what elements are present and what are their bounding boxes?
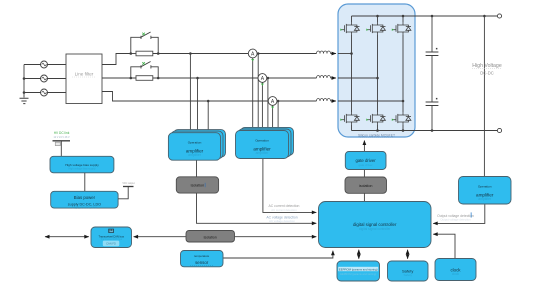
svg-text:AC current detection: AC current detection: [271, 208, 297, 212]
svg-text:EEPROM (params and storing): EEPROM (params and storing): [339, 267, 378, 271]
node: bus junction phase C: [23, 91, 26, 94]
transistor Q4: [340, 112, 359, 125]
ground: [20, 98, 29, 103]
svg-text:Safety: Safety: [403, 273, 412, 277]
wire: phase A after resistor: [153, 53, 317, 55]
node: top bus cap branch: [431, 15, 434, 18]
wire: DC- bottom bus: [352, 130, 498, 132]
High voltage bias supply box: [50, 156, 114, 173]
op-amp U1 (AC voltage operation amplifier, stacked): [168, 130, 225, 161]
transistor Q2: [366, 22, 385, 35]
switch S1 blade: [141, 32, 151, 37]
wire: phase A line to resistor: [131, 53, 136, 55]
op-amp U3 (output voltage operation amplifier): [459, 177, 512, 205]
isolation2: [186, 231, 235, 243]
wire: CAN bus external left: [45, 236, 89, 238]
svg-text:isolation: isolation: [204, 235, 217, 239]
node: after sensor A1: [257, 52, 260, 55]
wire: clock to DSC: [433, 234, 455, 258]
wire: op-amp U1 to isolation1: [196, 160, 198, 177]
node: top bus HV sense: [483, 15, 486, 18]
svg-text:isolation: isolation: [359, 184, 373, 188]
wire: phase A to leg 1: [338, 53, 352, 55]
wire: bias supply to bias power: [84, 173, 86, 192]
node: leg2 midpoint: [376, 77, 379, 80]
transistor Q5: [366, 112, 385, 125]
wire: sensor A1 tap down to op-amp U2: [257, 54, 259, 132]
node: leg1 midpoint: [350, 52, 353, 55]
svg-text:Line filter: Line filter: [75, 72, 94, 77]
battery input symbol: [53, 141, 71, 157]
op-amp U2 (AC current operation amplifier, stacked): [236, 127, 294, 158]
wire: sensor A2 output down to op-amp U2: [261, 82, 263, 131]
svg-text:VCC output: VCC output: [122, 182, 135, 185]
svg-text:Bias power: Bias power: [74, 195, 96, 200]
wire: bridge leg 3: [402, 16, 404, 131]
text cursor: [470, 212, 473, 217]
label: High Voltage DC-DC: [472, 63, 502, 76]
capacitor C1: [426, 16, 439, 102]
node: R1 left: [130, 52, 133, 55]
node: top bus col2: [376, 15, 379, 18]
svg-text:amplifier: amplifier: [188, 153, 202, 157]
svg-text:High voltage bias supply: High voltage bias supply: [68, 167, 96, 170]
wire: isolation1 to DSC (AC voltage detection): [197, 193, 317, 223]
node: voltage tap phase B: [196, 77, 199, 80]
svg-text:amplifier: amplifier: [256, 151, 270, 155]
svg-text:amplifier: amplifier: [478, 197, 492, 201]
wire: phase B input: [24, 78, 66, 80]
CAN transceiver box: [91, 227, 132, 248]
wire: L3 to bridge with arrow: [331, 100, 337, 102]
node: voltage tap phase C: [207, 100, 210, 103]
svg-text:AC voltage detection: AC voltage detection: [269, 219, 295, 223]
terminal: DC+ output: [497, 14, 501, 18]
digital signal controller U4: [319, 202, 432, 248]
current sensor A2: [258, 74, 267, 86]
transistor Q6: [392, 112, 411, 125]
wire: voltage tap B down to op-amp U1: [197, 78, 199, 133]
svg-text:gate driver: gate driver: [359, 163, 373, 167]
sensor box (temperature sensor): [181, 251, 224, 267]
SiC MOSFET bridge container: [338, 4, 415, 137]
wire: DSC to EEPROM double arrow: [358, 250, 360, 259]
svg-text:temperature: temperature: [194, 254, 210, 258]
wire: phase B to leg 2: [338, 77, 378, 79]
AC source V3: [41, 89, 48, 96]
Line filter box: [66, 54, 102, 104]
wire: gate driver to isolation: [363, 170, 365, 178]
node: after sensor A3: [277, 100, 280, 103]
wire: HV sense down to op-amp U3: [483, 16, 485, 177]
switch S1 green mark: [142, 33, 145, 36]
wire: bridge leg 1: [351, 16, 353, 131]
wire: isolation2 to CAN transceiver: [134, 236, 186, 238]
wire: L1 to bridge with arrow: [331, 53, 337, 55]
isolation3: [345, 177, 387, 193]
wire: phase C filter output jog: [102, 92, 317, 102]
wire: op-amp U3 to DSC (Output voltage detection): [433, 204, 485, 223]
inductor L1: [317, 51, 331, 54]
svg-text:clock: clock: [452, 272, 460, 276]
resistor R2: [136, 76, 153, 81]
svg-text:12 V 24 V 48 V: 12 V 24 V 48 V: [53, 136, 69, 139]
svg-text:Operation: Operation: [188, 141, 202, 145]
svg-text:DC-DC: DC-DC: [480, 71, 494, 76]
wire: voltage tap A down to op-amp U1: [189, 54, 191, 134]
wire: voltage tap C down to op-amp U1: [207, 101, 209, 133]
node: bus junction phase B: [23, 77, 26, 80]
switch S2 bypass: [131, 65, 158, 78]
svg-text:isolation: isolation: [191, 184, 205, 188]
node: bottom bus col3: [402, 129, 405, 132]
svg-text:Output voltage detection: Output voltage detection: [440, 218, 471, 222]
transistor Q3: [392, 22, 411, 35]
inductor L2: [317, 76, 331, 79]
node: R1 right: [157, 52, 160, 55]
terminal: DC- output: [497, 128, 501, 132]
wire: isolation2 to DSC: [235, 236, 317, 238]
VCC output symbol: [118, 187, 133, 199]
wire: gate driver to bridge arrow: [363, 141, 365, 152]
isolation1: [176, 177, 218, 193]
wire: phase A input: [24, 64, 66, 66]
wire: phase C input: [24, 92, 66, 94]
resistor R1: [136, 51, 153, 56]
svg-text:digital signal controller: digital signal controller: [359, 227, 391, 231]
node: bottom bus col2: [376, 129, 379, 132]
Bias power box: [51, 191, 118, 208]
AC source V2: [41, 75, 48, 82]
gate driver box: [345, 152, 386, 170]
CAN transceiver selected text patch: [103, 241, 120, 247]
node: R2 right: [157, 77, 160, 80]
svg-text:High voltage bias supply: High voltage bias supply: [65, 163, 99, 167]
wire: bridge leg 2: [377, 16, 379, 131]
wire: left neutral bus: [23, 65, 25, 98]
wire: isolation to DSC: [363, 193, 365, 201]
wire: sensor A3 output down to op-amp U2: [272, 105, 274, 131]
svg-text:CAN FD: CAN FD: [106, 242, 116, 246]
capacitor C1 polarity: [436, 48, 438, 50]
Safety box: [388, 261, 429, 281]
switch S1 bypass: [131, 36, 158, 54]
node: voltage tap phase A: [189, 52, 192, 55]
clock box: [435, 259, 476, 281]
wire: sensor A3 tap down to op-amp U2: [277, 101, 279, 131]
svg-text:sensor: sensor: [195, 260, 209, 265]
node: R2 left: [130, 77, 133, 80]
wire: phase B filter output: [102, 77, 136, 79]
svg-text:Operation: Operation: [255, 139, 269, 143]
wire: sensor A2 tap down to op-amp U2: [267, 78, 269, 131]
wire: sensor A1 output down to op-amp U2: [252, 58, 254, 131]
svg-text:Operation: Operation: [478, 185, 492, 189]
transistor Q1: [340, 22, 359, 35]
wire: L2 to bridge with arrow: [331, 77, 337, 79]
svg-text:HV DC link: HV DC link: [54, 131, 70, 135]
current sensor A1: [248, 49, 257, 61]
wire: DSC to Safety double arrow: [407, 250, 409, 259]
node: after sensor A2: [267, 77, 270, 80]
svg-text:Silicon carbide MOSFET: Silicon carbide MOSFET: [358, 134, 395, 138]
wire: phase B after resistor: [153, 77, 317, 79]
node: top bus col3: [402, 15, 405, 18]
capacitor C2 polarity: [436, 98, 438, 100]
svg-text:EEPROM (params and storing): EEPROM (params and storing): [340, 272, 376, 276]
svg-text:supply DC-DC, LDO: supply DC-DC, LDO: [72, 205, 98, 209]
node: bottom bus cap branch: [431, 129, 434, 132]
switch S2 blade: [141, 62, 151, 67]
svg-text:Transceiver/CAN bus: Transceiver/CAN bus: [98, 234, 124, 238]
wire: phase A filter output jog: [102, 54, 131, 65]
inductor L3: [317, 99, 331, 102]
wire: DC+ top bus: [352, 15, 498, 17]
capacitor C2: [426, 102, 439, 131]
switch S2 green mark: [142, 62, 145, 65]
wire: op-amp U2 to DSC (AC current detection): [263, 159, 316, 213]
wire: sensor box to DSC: [223, 251, 333, 258]
current sensor A3: [268, 97, 277, 109]
node: leg3 midpoint: [402, 100, 405, 103]
AC source V1: [41, 61, 48, 68]
EEPROM box: [337, 261, 380, 281]
wire: phase C to leg 3: [338, 100, 403, 102]
CAN transceiver icon: [108, 229, 114, 233]
